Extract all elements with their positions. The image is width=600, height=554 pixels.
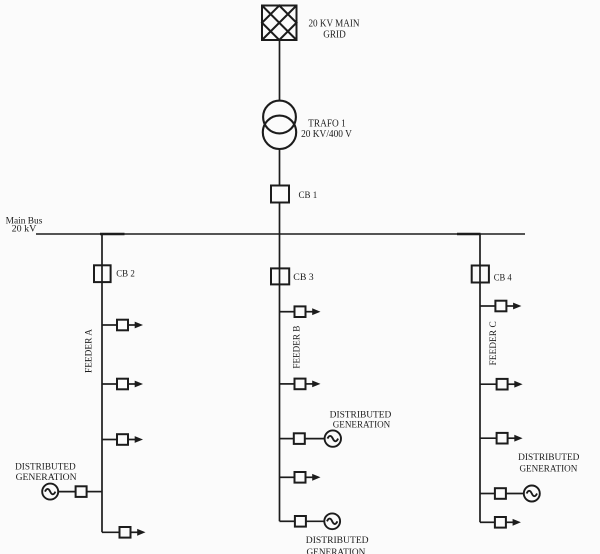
svg-text:CB 3: CB 3	[293, 273, 314, 283]
load branch A4 (bottom corner)	[102, 527, 146, 538]
svg-text:CB 1: CB 1	[299, 191, 318, 201]
load branch B1	[280, 306, 321, 317]
load branch C3	[480, 433, 523, 444]
svg-text:GENERATION: GENERATION	[519, 463, 577, 474]
svg-text:20 KV/400 V: 20 KV/400 V	[301, 129, 352, 140]
feeder C wire (vertical)	[479, 234, 481, 522]
svg-text:GENERATION: GENERATION	[16, 472, 77, 483]
svg-text:FEEDER C: FEEDER C	[488, 321, 498, 365]
load branch C2	[480, 379, 523, 390]
distributed generator B1 (source circle)	[325, 430, 341, 446]
distributed generator C (source circle)	[524, 486, 540, 502]
wire CB1 to bus	[279, 203, 281, 235]
feeder B wire (vertical)	[279, 234, 281, 521]
svg-text:DISTRIBUTED: DISTRIBUTED	[306, 535, 369, 546]
load branch B2	[280, 379, 321, 390]
circuit breaker CB 1	[271, 186, 289, 203]
svg-text:GENERATION: GENERATION	[306, 547, 365, 554]
svg-text:CB 4: CB 4	[494, 273, 512, 283]
transformer T1 (two overlapping circles)	[263, 101, 296, 149]
svg-text:FEEDER A: FEEDER A	[84, 328, 94, 373]
bus junction segment at feeder A	[100, 233, 125, 236]
distributed generator B2 (source circle)	[324, 513, 340, 529]
load branch C1	[480, 301, 521, 312]
circuit breaker CB 4	[472, 266, 489, 283]
DG B2 switch square (bottom corner)	[280, 516, 325, 527]
DG A switch square	[58, 486, 102, 497]
wire transformer to CB1	[279, 149, 281, 186]
svg-text:TRAFO 1: TRAFO 1	[308, 119, 346, 130]
svg-text:20 KV MAIN: 20 KV MAIN	[309, 19, 360, 30]
main bus 20 kV	[36, 233, 525, 235]
svg-text:DISTRIBUTED: DISTRIBUTED	[330, 409, 392, 420]
DG B1 switch square	[280, 433, 325, 444]
circuit breaker CB 2	[94, 265, 111, 282]
load branch A1	[102, 320, 143, 331]
svg-text:FEEDER B: FEEDER B	[292, 326, 302, 369]
load branch C4 (bottom corner)	[480, 517, 521, 528]
svg-text:GENERATION: GENERATION	[333, 420, 391, 431]
feeder A wire (vertical)	[101, 234, 103, 532]
DG C switch square	[480, 488, 524, 499]
bus junction segment at feeder C	[457, 233, 481, 236]
svg-text:GRID: GRID	[323, 29, 346, 40]
wire grid to transformer	[279, 40, 281, 101]
svg-text:20 kV: 20 kV	[12, 224, 37, 234]
circuit breaker CB 3	[271, 268, 289, 284]
20 kV main grid symbol	[262, 6, 297, 41]
load branch A3	[102, 434, 143, 445]
load branch B3	[280, 472, 321, 483]
load branch A2	[102, 379, 143, 390]
distributed generator A (source circle)	[42, 484, 58, 500]
svg-text:DISTRIBUTED: DISTRIBUTED	[518, 452, 579, 463]
svg-text:CB 2: CB 2	[116, 270, 135, 280]
